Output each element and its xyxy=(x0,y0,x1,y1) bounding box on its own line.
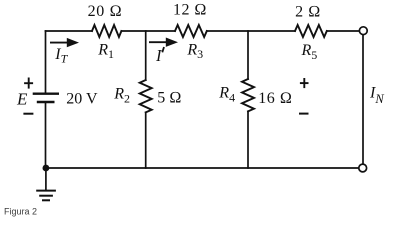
ground stem xyxy=(45,168,47,190)
wire left upper (E top lead) xyxy=(45,31,47,94)
battery minus sign xyxy=(23,113,33,115)
battery E plates xyxy=(33,94,59,102)
svg-text:R4: R4 xyxy=(218,84,235,104)
svg-text:Figura 2: Figura 2 xyxy=(4,206,37,216)
ground bars xyxy=(36,191,56,201)
svg-text:16 Ω: 16 Ω xyxy=(258,90,292,107)
node junction dot xyxy=(43,165,50,172)
svg-text:R2: R2 xyxy=(113,85,130,105)
resistor R5 xyxy=(295,25,327,37)
svg-text:IN: IN xyxy=(369,84,384,106)
resistor R3 xyxy=(175,25,207,37)
wire R4 branch bottom lead xyxy=(247,111,249,168)
resistor R1 xyxy=(92,25,121,37)
wire top segment 4 xyxy=(327,30,360,32)
svg-text:R3: R3 xyxy=(186,42,203,62)
svg-text:R1: R1 xyxy=(97,41,114,60)
battery plus sign xyxy=(24,78,33,89)
svg-text:5 Ω: 5 Ω xyxy=(157,89,181,106)
resistor R4 xyxy=(242,79,254,111)
wire top segment 3 xyxy=(207,30,295,32)
wire R2 branch top lead xyxy=(145,31,147,80)
svg-text:IT: IT xyxy=(54,46,68,66)
wire top segment 1 xyxy=(46,30,93,32)
wire left lower (E bottom lead) xyxy=(45,102,47,168)
terminal top right xyxy=(359,27,367,35)
svg-text:2 Ω: 2 Ω xyxy=(295,3,321,20)
svg-text:12 Ω: 12 Ω xyxy=(173,2,207,19)
svg-text:20 V: 20 V xyxy=(66,91,98,108)
output minus sign xyxy=(299,113,309,115)
current arrow IT xyxy=(50,38,79,47)
wire right vertical xyxy=(362,35,364,164)
wire R2 branch bottom lead xyxy=(145,112,147,168)
wire R4 branch top lead xyxy=(247,31,249,79)
svg-text:E: E xyxy=(16,89,28,108)
resistor R2 xyxy=(140,80,152,112)
wire bottom xyxy=(46,167,359,169)
terminal bottom right xyxy=(359,164,367,172)
wire top segment 2 xyxy=(121,30,175,32)
svg-text:20 Ω: 20 Ω xyxy=(88,3,123,20)
svg-text:I: I xyxy=(155,46,163,65)
current arrow I' xyxy=(149,38,178,47)
svg-text:R5: R5 xyxy=(301,42,318,62)
output plus sign xyxy=(300,78,309,88)
